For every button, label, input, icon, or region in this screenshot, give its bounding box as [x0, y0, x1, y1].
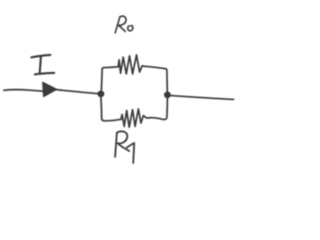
wire: arrow to node A [56, 90, 98, 94]
wire: R1 to bottom-right corner up to node B [149, 98, 168, 120]
label R0 [115, 16, 133, 33]
label I [31, 55, 54, 75]
wire: R0 to top-right corner down to node B [145, 66, 168, 91]
wire: node A up and across to R0 [101, 67, 118, 92]
node A (left junction) [98, 91, 104, 97]
wire: node A down and across to R1 [101, 97, 121, 121]
label R1 [115, 131, 134, 163]
node B (right junction) [164, 92, 170, 98]
wire: left input lead [4, 90, 43, 92]
wire: right output lead [168, 95, 234, 99]
current arrow (direction of I) [43, 82, 57, 96]
resistor R1 (zigzag) [121, 109, 149, 127]
resistor R0 (zigzag) [118, 55, 144, 74]
